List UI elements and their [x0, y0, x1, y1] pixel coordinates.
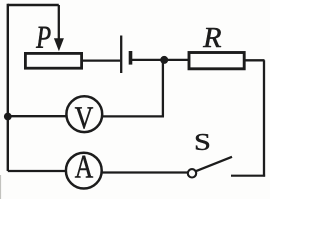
junction node at left rail / voltmeter: [4, 113, 12, 121]
junction node at battery/R/voltmeter branch: [160, 56, 168, 64]
wire: rheostat to battery positive plate: [83, 59, 120, 61]
wire: left rail to voltmeter: [8, 115, 67, 117]
wire: ammeter to switch: [102, 171, 188, 173]
battery short plate (-): [129, 51, 133, 65]
wire: bottom-right stub to switch lever side: [231, 175, 265, 177]
wiper arrowhead onto P: [54, 38, 64, 51]
rheostat P body: [25, 53, 81, 68]
ammeter A body: [66, 153, 102, 189]
voltmeter V body: [66, 96, 102, 132]
wire: right vertical rail: [263, 60, 265, 176]
label V inside voltmeter: [75, 107, 93, 128]
wire: resistor to right rail: [245, 59, 265, 61]
wire: vertical branch from junction down to voltmeter: [162, 60, 164, 117]
battery long plate (+): [120, 36, 122, 74]
wire: voltmeter to junction branch: [102, 115, 164, 117]
label R: [203, 28, 221, 47]
wire: top horizontal from left rail to P wiper: [8, 4, 59, 7]
switch S pivot circle: [188, 169, 196, 177]
wire: bottom horizontal from left rail to ammeter: [8, 170, 66, 172]
scan smear artifact bottom-left edge: [0, 175, 1, 199]
resistor R body: [189, 53, 244, 69]
switch S lever (open): [196, 157, 232, 171]
wire: left vertical rail: [7, 4, 9, 171]
wire: wiper arrow shaft of P: [58, 5, 60, 40]
wire: battery to resistor R: [132, 59, 189, 61]
label A inside ammeter: [75, 156, 93, 178]
label S: [196, 134, 209, 150]
label P: [36, 27, 50, 48]
